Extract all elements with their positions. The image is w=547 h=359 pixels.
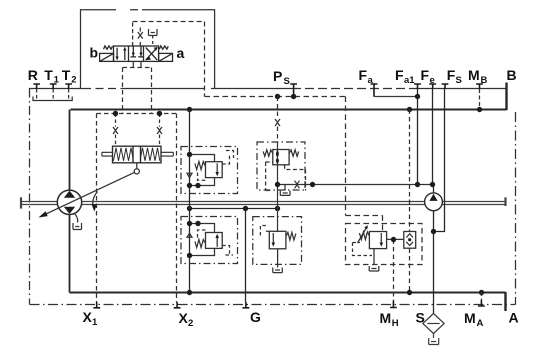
svg-text:H: H: [392, 318, 399, 329]
shaft end cap left: [20, 197, 22, 208]
inner dashed box: [266, 162, 306, 191]
svg-text:F: F: [421, 67, 430, 83]
valve double arrow: [276, 151, 278, 164]
PS pilot supply line: [205, 97, 383, 232]
centre position blocked ports: [133, 46, 141, 53]
valve flow arrow: [380, 233, 382, 244]
pump port line lower (pump to A-line): [69, 214, 71, 293]
valve drain to tank: [373, 249, 375, 265]
tank: [369, 266, 379, 271]
main pump P1: [57, 190, 81, 214]
pilot supply dashed path above valve with orifice: [123, 22, 205, 114]
port X2 tick: [174, 302, 181, 308]
pump P1 flow triangle up: [64, 191, 75, 198]
wire main control riser: [189, 110, 191, 293]
node Fe on collector: [430, 182, 435, 187]
port R tick: [33, 84, 40, 89]
link cylinder to pivot: [136, 163, 138, 169]
pilot dashes top-left: [198, 230, 206, 238]
orifice on PS branch: [275, 119, 280, 126]
valve inlet branch: [190, 224, 215, 233]
valve body: [206, 162, 223, 178]
A main line: [70, 292, 506, 294]
port MB tick: [476, 84, 483, 89]
svg-text:M: M: [468, 67, 480, 83]
node PS junction: [291, 94, 296, 99]
shuttle chevrons: [406, 234, 413, 246]
wire aux pump outlet: [433, 185, 435, 194]
wire G riser: [245, 209, 247, 303]
inner dashed pocket: [353, 243, 373, 256]
shuttle box: [404, 232, 416, 249]
svg-text:G: G: [250, 309, 261, 325]
port Fe tick: [429, 84, 436, 89]
svg-text:M: M: [380, 310, 392, 326]
valve spring left: [263, 150, 273, 157]
svg-text:1: 1: [54, 75, 60, 86]
enclosure: [181, 217, 238, 264]
orifice on drain line: [295, 181, 300, 189]
port MA tick: [478, 300, 485, 306]
valve spring: [195, 162, 206, 170]
valve A/B work port manifold under valve: [133, 61, 141, 67]
valve spring right: [289, 150, 299, 157]
node pilot branch to pressure control: [275, 94, 280, 99]
node MH branch: [391, 237, 396, 242]
svg-text:X: X: [83, 309, 93, 325]
pump P1 flow triangle down: [64, 207, 75, 214]
svg-text:F: F: [395, 67, 404, 83]
valve spring with adjustment arrow: [359, 232, 369, 240]
svg-text:S: S: [284, 76, 290, 87]
valve body: [369, 232, 386, 249]
svg-text:R: R: [28, 67, 38, 83]
svg-text:a1: a1: [404, 75, 415, 86]
node block2 inlet: [187, 221, 192, 226]
aux pump circle: [425, 193, 443, 211]
wire filter to tank: [433, 334, 435, 339]
wire orifice branch left: [115, 114, 117, 147]
check direction marker: [187, 173, 192, 177]
valve outlet branch: [190, 178, 215, 186]
valve spring right: [286, 232, 296, 240]
node MB on B line: [477, 107, 482, 112]
drain line y185: [278, 184, 434, 186]
piston: [133, 146, 141, 163]
valve body: [273, 150, 289, 165]
valve flow arrow: [272, 233, 274, 244]
enclosure dashed: [346, 224, 423, 265]
feedback pivot circle: [134, 169, 139, 174]
drain dashes bottom-right: [222, 246, 233, 256]
port T1 tick: [50, 84, 57, 89]
centering spring left: [114, 148, 134, 161]
port X1 tick: [93, 302, 100, 308]
svg-text:e: e: [430, 75, 435, 86]
wire valve through line: [277, 142, 279, 231]
svg-text:2: 2: [188, 318, 193, 329]
pilot manifold dashed line: [97, 113, 177, 115]
suction filter diamond S: [423, 314, 444, 345]
outer housing boundary dash-dot left edge: [29, 89, 31, 305]
svg-text:T: T: [44, 67, 53, 83]
port Fa tick: [371, 84, 378, 97]
node block2 inlet b: [195, 221, 200, 226]
wire MH dashed down: [393, 240, 395, 302]
MB dashed line to B line: [479, 89, 481, 110]
B main line: [71, 109, 507, 111]
right position crossed arrows: [146, 48, 157, 60]
valve inlet branch: [190, 155, 215, 162]
svg-text:A: A: [477, 318, 484, 329]
pump port line upper (B-line to pump): [69, 110, 71, 191]
node cutoff valve outlet: [275, 182, 280, 187]
pilot dashes lower-left: [198, 173, 206, 181]
node block1 outlet: [187, 183, 192, 188]
valve outlet to MH: [387, 238, 404, 240]
svg-text:a: a: [177, 45, 185, 61]
svg-text:a: a: [368, 75, 374, 86]
tank under valve: [284, 185, 286, 191]
wire PS branch dashed with orifice: [277, 97, 279, 143]
svg-text:A: A: [509, 310, 519, 326]
centering spring right: [141, 148, 160, 161]
valve flow arrow: [216, 237, 218, 247]
svg-text:T: T: [62, 67, 71, 83]
svg-text:F: F: [447, 67, 456, 83]
solenoid b with spring: [100, 53, 114, 61]
node block2 outlet: [187, 253, 192, 258]
orifice right: [157, 127, 162, 134]
left position parallel arrows: [117, 48, 125, 60]
pilot dashes top-left: [260, 226, 269, 236]
svg-text:B: B: [507, 67, 517, 83]
port PS tick: [290, 84, 297, 97]
svg-text:P: P: [273, 68, 282, 84]
node Fa1 on collector: [415, 182, 420, 187]
port Fa1 tick: [414, 84, 421, 89]
node drain line after orifice: [310, 182, 315, 187]
port MH tick: [390, 301, 397, 308]
wire FS riser: [434, 89, 445, 232]
svg-text:1: 1: [92, 317, 98, 328]
node FS on suction: [431, 229, 436, 234]
variable displacement arrow through pump: [41, 171, 137, 216]
enclosure: [181, 147, 238, 194]
port T2 tick: [65, 84, 72, 89]
valve flow arrow: [216, 163, 218, 173]
node orifice branch left: [113, 111, 118, 116]
check direction marker: [187, 233, 192, 237]
node block1 inlet: [187, 152, 192, 157]
tank under filter: [429, 338, 439, 345]
svg-text:S: S: [416, 310, 425, 326]
valve outlet to tank: [277, 249, 279, 265]
node MA on A line: [479, 290, 484, 295]
node block1 outlet b: [195, 183, 200, 188]
orifice at pilot valve: [138, 32, 143, 39]
node riser on A line: [187, 290, 192, 295]
pilot valve body three positions: [114, 46, 159, 61]
wire Fe riser: [432, 89, 434, 185]
svg-text:F: F: [359, 67, 368, 83]
node B line to control block: [187, 107, 192, 112]
port FS tick: [442, 84, 449, 89]
orifice left: [113, 127, 118, 134]
svg-text:S: S: [456, 75, 462, 86]
wire control line: [190, 208, 278, 210]
valve outlet branch: [190, 248, 215, 255]
drain dashes top-right: [222, 151, 233, 165]
node B line pressure tap: [407, 107, 412, 112]
port G tick: [243, 302, 250, 308]
svg-text:X: X: [179, 310, 189, 326]
enclosure dash-dot: [253, 217, 302, 265]
pump case drain hook and tank: [73, 214, 82, 230]
svg-text:B: B: [481, 75, 488, 86]
node control line left: [187, 206, 192, 211]
outer housing boundary right edge: [515, 112, 517, 305]
solenoid a with spring: [159, 53, 173, 61]
wire orifice branch right: [159, 114, 161, 147]
stroking cylinder body: [102, 146, 173, 163]
node G junction: [243, 206, 248, 211]
pilot valve drain tank: [149, 29, 158, 36]
valve body: [269, 231, 286, 249]
wire Fa1 riser: [417, 89, 419, 185]
outer housing boundary bottom edge: [30, 304, 516, 306]
R T1 T2 drain bracket: [33, 89, 72, 101]
Fa connection line to Fa1: [374, 96, 418, 98]
swivel angle arc: [93, 192, 98, 209]
svg-text:M: M: [464, 310, 476, 326]
enclosure dash-dot: [257, 142, 305, 190]
wire B-line tap dashed through shuttle to A-line: [409, 110, 411, 293]
outer housing boundary top edge: [29, 88, 83, 90]
aux pump triangle: [429, 194, 437, 201]
node Fa-Fa1: [415, 94, 420, 99]
wire X2 pilot line: [176, 114, 178, 303]
piston rod: [102, 152, 113, 156]
valve body: [206, 233, 223, 249]
svg-text:2: 2: [71, 75, 76, 86]
valve spring: [195, 240, 206, 248]
node tap on A line: [407, 290, 412, 295]
wire aux pump suction down to S: [433, 211, 435, 314]
top pilot-valve box: [81, 10, 117, 89]
drive shaft: [21, 197, 506, 208]
wire MA dashed: [481, 293, 483, 301]
node orifice branch right: [157, 111, 162, 116]
svg-text:b: b: [90, 45, 99, 61]
shaft end cap right: [504, 197, 506, 206]
tank: [273, 268, 283, 273]
wire X1 pilot line: [96, 114, 98, 303]
node control line right: [275, 206, 280, 211]
